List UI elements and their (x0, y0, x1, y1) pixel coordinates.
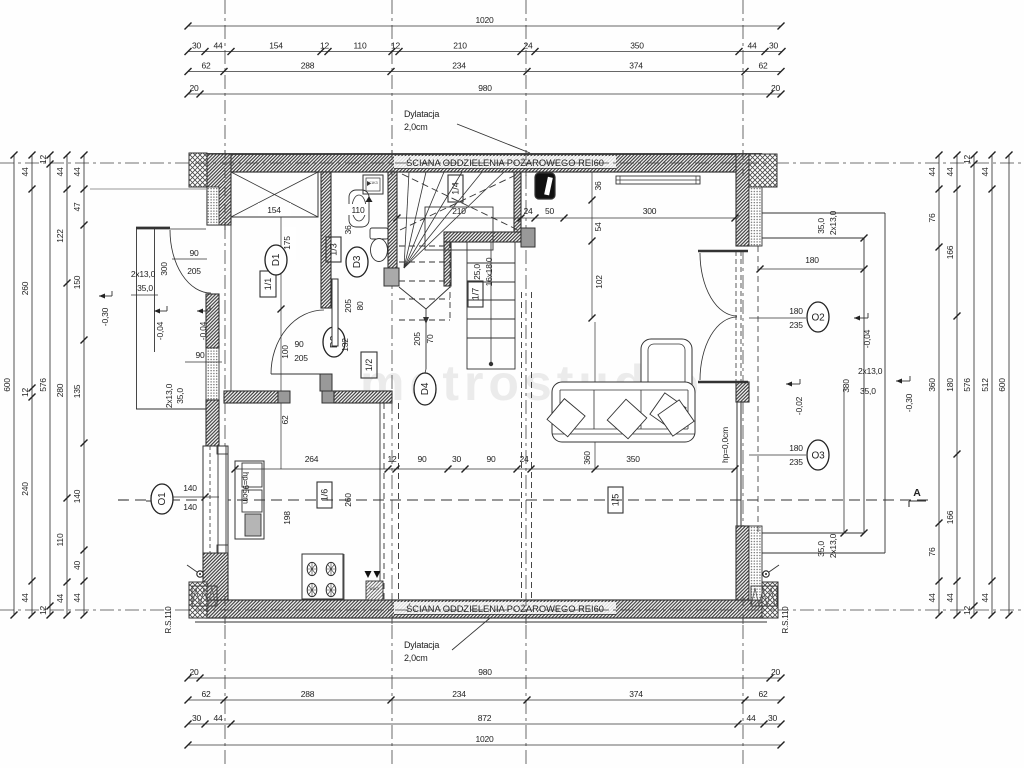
washing machine (363, 175, 383, 194)
svg-text:135: 135 (72, 384, 82, 398)
door stop circle SW (197, 571, 203, 577)
svg-text:30: 30 (452, 454, 462, 464)
axis overlay vertical B (391, 150, 393, 176)
left dim col 600 (13, 155, 15, 615)
svg-text:44: 44 (945, 167, 955, 177)
svg-text:150: 150 (72, 275, 82, 289)
svg-text:235: 235 (789, 320, 803, 330)
svg-text:D1: D1 (271, 253, 282, 266)
svg-text:300: 300 (643, 206, 657, 216)
dim chain 210-24-50-300 (397, 217, 735, 219)
svg-text:12: 12 (962, 155, 972, 165)
svg-text:44: 44 (20, 167, 30, 177)
svg-text:380: 380 (841, 379, 851, 393)
left wall pier dotted mid (206, 348, 219, 400)
window O2 door leaf top (698, 250, 748, 253)
svg-text:12: 12 (387, 454, 397, 464)
left wall top segment (207, 154, 231, 225)
stair upper treads dashed (399, 245, 450, 247)
axis overlay horizontal bottom (195, 609, 775, 611)
right wall outer layer top (749, 176, 762, 246)
svg-text:576: 576 (962, 378, 972, 392)
dim line 175 vertical (280, 217, 282, 391)
axis centerline horizontal bottom (0, 609, 1024, 611)
svg-text:O2: O2 (812, 313, 826, 324)
svg-text:35,0: 35,0 (816, 218, 826, 234)
kitchen sink drainer (245, 514, 261, 536)
svg-text:hp=95cm: hp=95cm (241, 472, 250, 504)
svg-text:140: 140 (183, 502, 197, 512)
svg-text:1/6: 1/6 (320, 489, 330, 502)
svg-text:44: 44 (20, 593, 30, 603)
room tag 1/6 (317, 482, 332, 508)
top dim row detail (188, 51, 782, 53)
svg-text:24: 24 (523, 41, 533, 51)
svg-text:62: 62 (758, 61, 768, 71)
svg-text:20: 20 (771, 83, 781, 93)
svg-text:2x13,0: 2x13,0 (164, 383, 174, 408)
svg-text:1/5: 1/5 (611, 494, 621, 507)
svg-text:20: 20 (189, 83, 199, 93)
dim 62 rotated (280, 403, 282, 469)
door D1 leaf (136, 227, 170, 230)
svg-text:-0,04: -0,04 (862, 329, 872, 348)
svg-text:122: 122 (55, 229, 65, 243)
svg-text:288: 288 (301, 61, 315, 71)
svg-text:288: 288 (301, 689, 315, 699)
svg-text:44: 44 (213, 41, 223, 51)
svg-text:350: 350 (626, 454, 640, 464)
svg-text:166: 166 (945, 510, 955, 524)
svg-text:2,0cm: 2,0cm (404, 122, 428, 132)
svg-text:205: 205 (294, 353, 308, 363)
stair right wall (514, 172, 521, 232)
svg-text:2x13,0: 2x13,0 (131, 269, 156, 279)
svg-text:47: 47 (72, 202, 82, 212)
top dim row 1020 (188, 25, 781, 27)
right wall bottom segment (736, 526, 749, 600)
svg-text:90: 90 (486, 454, 496, 464)
stair center line (490, 242, 492, 366)
fire wall text top (394, 156, 616, 168)
svg-text:44: 44 (945, 593, 955, 603)
kitchen north wall pier 1 (278, 391, 290, 403)
svg-text:90: 90 (294, 339, 304, 349)
svg-text:350: 350 (630, 41, 644, 51)
level mark -0,04 left b (197, 310, 210, 312)
svg-text:16x18,0: 16x18,0 (484, 257, 494, 286)
svg-text:300: 300 (159, 262, 169, 276)
bottom exterior wall (206, 600, 766, 618)
svg-text:374: 374 (629, 689, 643, 699)
door circle D2 (323, 327, 345, 357)
svg-text:70: 70 (425, 334, 435, 344)
wardrobe crossed box (231, 172, 318, 217)
svg-text:132: 132 (340, 338, 350, 352)
svg-text:175: 175 (282, 236, 292, 250)
svg-text:872: 872 (478, 713, 492, 723)
svg-text:180: 180 (805, 255, 819, 265)
top-left corner insulation block (189, 153, 207, 187)
svg-text:240: 240 (20, 482, 30, 496)
top-right corner insulation block (749, 154, 777, 187)
axis overlay vertical C (525, 150, 527, 176)
interior wall hall-bath lower pier (320, 374, 332, 391)
dim chain 36-54-102 (591, 172, 593, 318)
bottom dim row 20-980-20 (188, 677, 781, 679)
level mark -0,04 left a (154, 310, 167, 312)
axis centerline vertical C (525, 0, 527, 768)
door stop circle SE (763, 571, 769, 577)
svg-text:50: 50 (545, 206, 555, 216)
svg-text:O3: O3 (812, 451, 826, 462)
stair lower flight box (467, 242, 515, 369)
svg-text:-0,30: -0,30 (100, 307, 110, 326)
stair right wall pier (521, 228, 535, 247)
room tag 1/2 (361, 352, 377, 378)
svg-text:280: 280 (55, 383, 65, 397)
bottom dim row 1020 (188, 744, 781, 746)
bath sink (349, 190, 369, 227)
left dim col 44-47-150-135-140-40-44 (83, 155, 85, 615)
top dim row 20-980-20 (188, 93, 781, 95)
svg-text:62: 62 (201, 689, 211, 699)
axis centerline vertical A (224, 0, 226, 768)
svg-text:36: 36 (343, 225, 353, 235)
svg-text:-0,02: -0,02 (794, 396, 804, 415)
window O2 swing arc top (700, 253, 737, 316)
svg-text:102: 102 (594, 275, 604, 289)
svg-text:35,0: 35,0 (860, 386, 876, 396)
svg-text:44: 44 (55, 594, 65, 604)
stair opening outline (425, 207, 493, 250)
svg-text:44: 44 (72, 593, 82, 603)
stair headroom dashed diagonals (400, 174, 518, 230)
svg-text:210: 210 (452, 206, 466, 216)
svg-text:Dylatacja: Dylatacja (404, 109, 439, 119)
svg-text:44: 44 (746, 713, 756, 723)
svg-text:90: 90 (195, 350, 205, 360)
east facade dashed line (757, 246, 759, 533)
right wall top segment (736, 154, 749, 246)
svg-text:1/7: 1/7 (471, 288, 481, 301)
dim 110 sink (348, 204, 368, 215)
sofa main body (552, 382, 695, 442)
door D3 leaf (332, 279, 338, 346)
door circle D1 (265, 245, 287, 275)
terrace step outline inner (762, 237, 864, 239)
stair fan tread lines (404, 172, 409, 268)
svg-text:12: 12 (962, 606, 972, 616)
svg-text:180: 180 (789, 443, 803, 453)
svg-text:154: 154 (269, 41, 283, 51)
roller shutter box SE (751, 586, 777, 606)
svg-text:2x13,0: 2x13,0 (828, 210, 838, 235)
right wall chunk between windows (736, 382, 749, 402)
svg-text:35,0: 35,0 (137, 283, 153, 293)
svg-text:62: 62 (280, 415, 290, 425)
kitchen sink basin 1 (242, 463, 262, 487)
room tag 1/1 (260, 271, 276, 297)
svg-text:ŚCIANA ODDZIELENIA POŻAROWEGO: ŚCIANA ODDZIELENIA POŻAROWEGO REI60 (406, 157, 604, 168)
svg-text:90: 90 (189, 248, 199, 258)
bottom dim row 30-44-872-44-30 (188, 723, 781, 725)
door D2 swing arc (271, 310, 324, 374)
door jamb grey block stairs (384, 268, 399, 286)
door D1 swing arc (170, 230, 211, 293)
right dim col 12-576-12 (973, 155, 975, 615)
svg-text:62: 62 (758, 689, 768, 699)
svg-text:140: 140 (72, 489, 82, 503)
svg-text:35,0: 35,0 (816, 541, 826, 557)
svg-text:ŚCIANA ODDZIELENIA POŻAROWEGO: ŚCIANA ODDZIELENIA POŻAROWEGO REI60 (406, 603, 604, 614)
stair lower treads (467, 262, 515, 264)
door circle D3 (346, 247, 368, 277)
level mark -0,04 east (854, 317, 868, 319)
top-left pier dotted (207, 187, 219, 225)
svg-text:24: 24 (523, 206, 533, 216)
level mark -0,30 left (99, 295, 112, 297)
dim 360 rotated sofa line (594, 322, 596, 469)
right dim col 44-76-360-76-44 (938, 155, 940, 615)
svg-text:264: 264 (305, 454, 319, 464)
svg-text:20: 20 (771, 667, 781, 677)
svg-text:35,0: 35,0 (175, 388, 185, 404)
svg-text:-0,30: -0,30 (904, 393, 914, 412)
svg-text:205: 205 (412, 332, 422, 346)
window O3 frame (736, 402, 738, 526)
svg-text:2x13,0: 2x13,0 (828, 533, 838, 558)
level mark -0,02 east (786, 383, 800, 385)
bottom-right corner block (762, 582, 778, 618)
kitchen appliance block (366, 581, 383, 600)
svg-text:234: 234 (452, 61, 466, 71)
svg-text:76: 76 (927, 213, 937, 223)
right dim col 600 (1008, 155, 1010, 615)
window O1 (203, 446, 228, 553)
svg-text:12: 12 (391, 41, 401, 51)
svg-text:180: 180 (945, 378, 955, 392)
bottom dim row 62-288-234-374-62 (188, 699, 781, 701)
window label O3 (749, 454, 806, 456)
svg-text:360: 360 (582, 451, 592, 465)
kitchen north wall west part (224, 391, 278, 403)
terrace step outline outer (762, 212, 885, 214)
svg-text:12: 12 (320, 41, 330, 51)
dim 140/140 window O1 (173, 496, 219, 498)
svg-text:44: 44 (213, 713, 223, 723)
sofa chaise part (641, 339, 692, 442)
svg-text:30: 30 (192, 41, 202, 51)
svg-text:205: 205 (343, 299, 353, 313)
kitchen sink basin 2 (242, 490, 262, 512)
left dim col 44-260-12-240-44 (31, 155, 33, 615)
svg-text:110: 110 (55, 533, 65, 546)
axis overlay horizontal top (195, 162, 770, 164)
bottom-left corner block (189, 582, 207, 618)
window O1 label circle (151, 484, 173, 514)
sofa pillow 3 (650, 393, 686, 429)
svg-text:30: 30 (192, 713, 202, 723)
svg-text:K1K3: K1K3 (370, 586, 380, 591)
door circle D4 (425, 369, 426, 373)
door D2 leaf (271, 373, 324, 375)
kitchen north wall pier 2 (322, 391, 334, 403)
svg-text:54: 54 (593, 222, 603, 232)
svg-text:12: 12 (38, 155, 48, 165)
svg-text:260: 260 (343, 493, 353, 507)
interior wall hall-bath (321, 172, 331, 308)
svg-text:576: 576 (38, 378, 48, 392)
svg-text:512: 512 (980, 378, 990, 392)
axis centerline horizontal top (0, 162, 1024, 164)
svg-text:2x13,0: 2x13,0 (858, 366, 883, 376)
svg-text:12: 12 (20, 388, 30, 398)
dim chain 264 row (235, 468, 735, 470)
svg-text:A: A (913, 487, 921, 499)
axis centerline vertical D (742, 0, 744, 768)
room tag 1/3 (326, 237, 341, 262)
kitchen stove (302, 554, 343, 599)
window O2 swing arc bottom (700, 317, 737, 380)
svg-text:110: 110 (352, 205, 365, 215)
svg-text:1/3: 1/3 (329, 243, 339, 256)
hall west edge line (230, 217, 232, 391)
svg-text:600: 600 (2, 378, 12, 392)
kitchen north wall east part (334, 391, 392, 403)
svg-text:374: 374 (629, 61, 643, 71)
svg-text:62: 62 (201, 61, 211, 71)
right dim col 44-166-180-166-44 (956, 155, 958, 615)
left wall segment below window (203, 553, 228, 600)
axis centerline vertical B (391, 0, 393, 768)
sofa pillow 2 (607, 399, 647, 439)
section line A-A (118, 499, 930, 501)
svg-text:2,0cm: 2,0cm (404, 653, 428, 663)
svg-text:110: 110 (354, 41, 367, 51)
svg-text:600: 600 (997, 378, 1007, 392)
svg-text:hp=0,0cm: hp=0,0cm (720, 427, 730, 463)
svg-text:44: 44 (980, 593, 990, 603)
svg-text:1/2: 1/2 (364, 359, 374, 372)
svg-text:-0,04: -0,04 (155, 321, 165, 340)
svg-text:198: 198 (282, 511, 292, 525)
window O2 door leaf bottom (698, 381, 748, 384)
left wall mid segment (206, 294, 219, 348)
svg-text:1020: 1020 (475, 15, 494, 25)
dim 154 wardrobe (258, 203, 291, 216)
radiator (616, 176, 700, 184)
svg-text:30: 30 (769, 41, 779, 51)
svg-text:210: 210 (453, 41, 467, 51)
axis overlay vertical A (224, 150, 226, 230)
svg-text:25,0: 25,0 (472, 264, 482, 280)
entrance porch step lines (136, 229, 138, 409)
svg-text:44: 44 (72, 167, 82, 177)
svg-text:76: 76 (927, 547, 937, 557)
svg-text:235: 235 (789, 457, 803, 467)
stair walk line (399, 287, 426, 309)
toilet (370, 228, 388, 239)
kitchen counter (235, 461, 264, 539)
level mark -0,30 east (896, 380, 910, 382)
svg-text:-0,04: -0,04 (198, 321, 208, 340)
svg-text:140: 140 (183, 483, 197, 493)
room tag 1/5 (608, 487, 623, 513)
left dim col 12-576-12 (49, 155, 51, 615)
top dim row 62-288-234-374-62 (188, 71, 781, 73)
svg-text:R.S.110: R.S.110 (781, 606, 790, 634)
svg-text:205: 205 (187, 266, 201, 276)
window O2 frame dashed (735, 251, 737, 382)
svg-text:166: 166 (945, 245, 955, 259)
svg-text:180: 180 (789, 306, 803, 316)
stair winder wall vertical (444, 242, 451, 286)
room tag 1/4 (448, 175, 463, 202)
svg-text:D4: D4 (420, 382, 431, 395)
svg-text:980: 980 (478, 83, 492, 93)
svg-text:1/4: 1/4 (451, 182, 461, 195)
svg-text:D3: D3 (352, 255, 363, 268)
svg-text:40: 40 (72, 561, 82, 571)
dim 180 terrace (760, 268, 864, 270)
axis overlay vertical D (742, 150, 744, 176)
svg-text:20: 20 (189, 667, 199, 677)
left wall segment below niche (206, 400, 219, 446)
svg-text:980: 980 (478, 667, 492, 677)
svg-text:1020: 1020 (475, 734, 494, 744)
left dim col 44-122-280-110-44 (66, 155, 68, 615)
room tag 1/7 (468, 281, 483, 307)
window label O2 (749, 317, 806, 319)
svg-text:Dylatacja: Dylatacja (404, 640, 439, 650)
svg-text:44: 44 (747, 41, 757, 51)
svg-text:36: 36 (593, 181, 603, 191)
stair winder wall horizontal (444, 232, 521, 242)
svg-text:O1: O1 (157, 492, 168, 506)
svg-text:44: 44 (927, 593, 937, 603)
svg-text:80: 80 (355, 301, 365, 311)
svg-text:360: 360 (927, 378, 937, 392)
svg-text:260: 260 (20, 281, 30, 295)
svg-text:154: 154 (267, 205, 281, 215)
svg-text:90: 90 (417, 454, 427, 464)
expansion joint dashed lines east (521, 292, 523, 600)
interior wall bath-stairs (388, 172, 397, 268)
svg-text:12: 12 (38, 606, 48, 616)
svg-text:234: 234 (452, 689, 466, 699)
svg-text:R.S.110: R.S.110 (164, 606, 173, 634)
svg-text:44: 44 (980, 167, 990, 177)
svg-text:44: 44 (55, 167, 65, 177)
right wall outer layer bottom (749, 526, 762, 600)
top exterior wall (206, 154, 762, 172)
roller shutter box SW (192, 586, 217, 606)
svg-text:24: 24 (519, 454, 529, 464)
svg-text:44: 44 (927, 167, 937, 177)
sofa pillow 1 (547, 399, 585, 437)
fire wall text bottom (394, 602, 616, 614)
svg-text:1/1: 1/1 (263, 278, 273, 291)
fireplace stove (535, 173, 555, 199)
expansion joint dashed lines (383, 403, 385, 600)
svg-text:100: 100 (280, 345, 290, 359)
right dim col 44-512-44 (991, 155, 993, 615)
svg-text:30: 30 (768, 713, 778, 723)
svg-text:K1K3: K1K3 (369, 180, 379, 185)
